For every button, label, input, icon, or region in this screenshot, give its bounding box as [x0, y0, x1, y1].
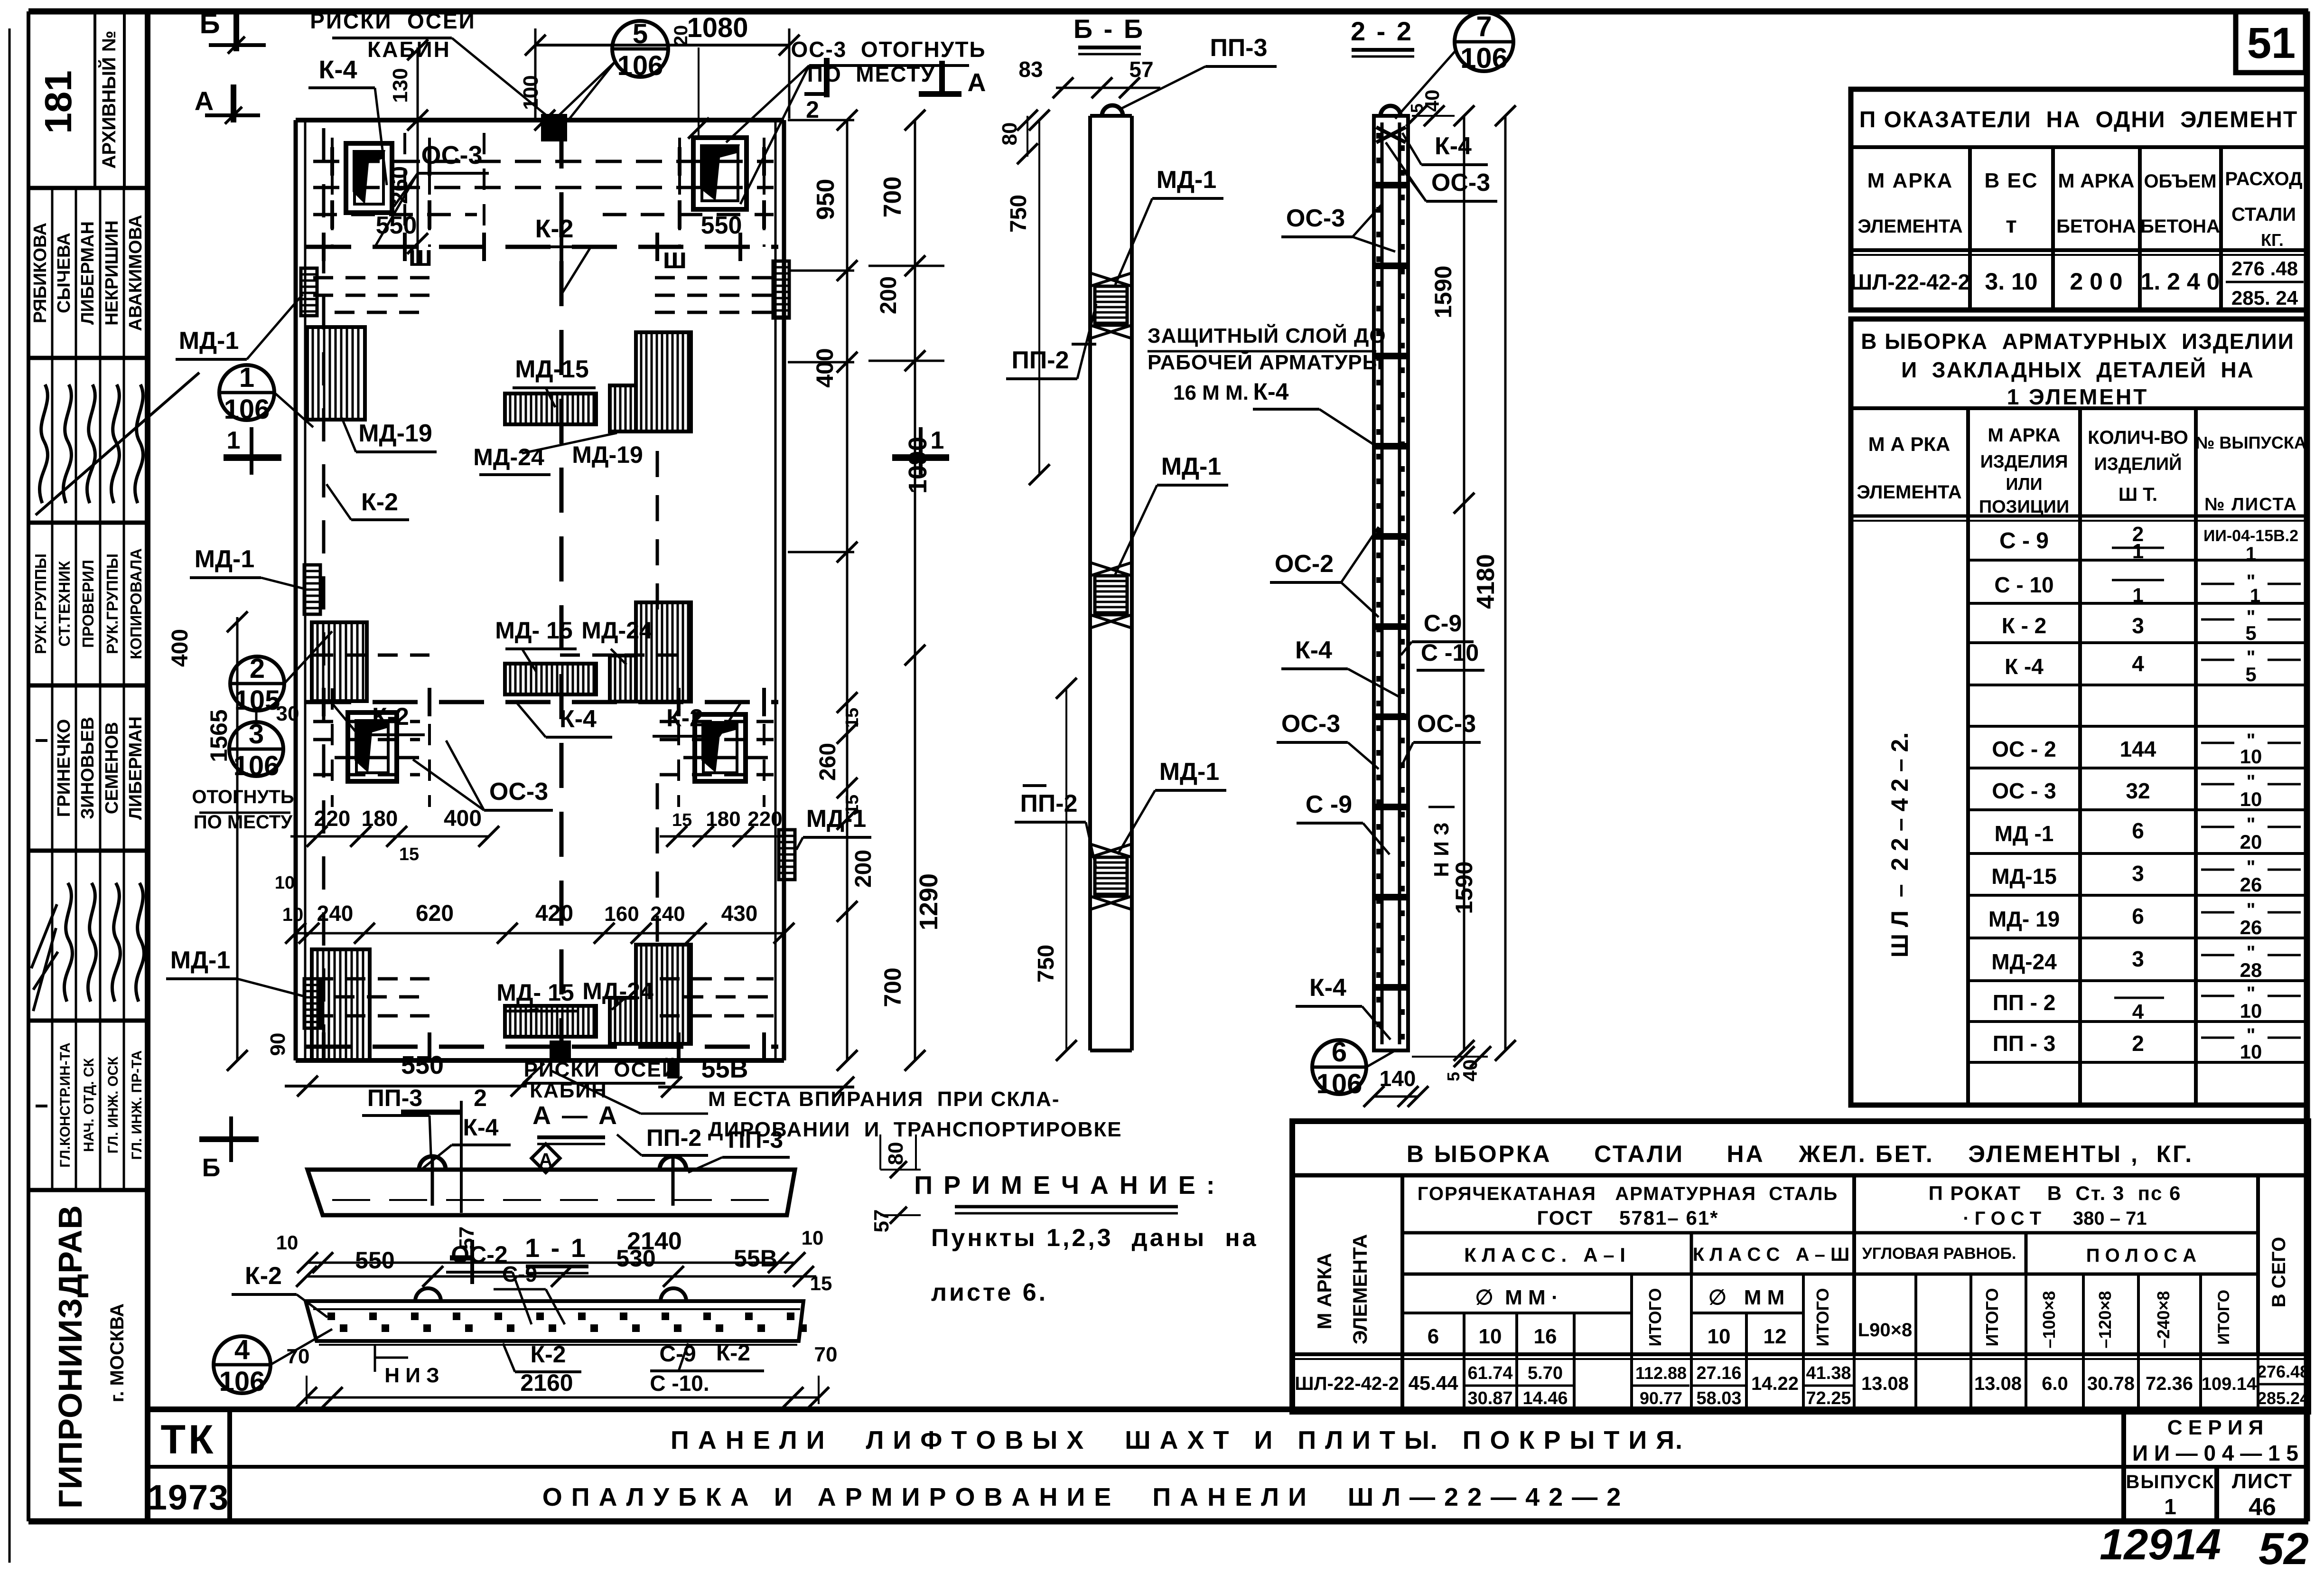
sidebar signatures row 2 [31, 851, 144, 1021]
plan opening top-right [693, 138, 747, 209]
dimension 130/260 top-left [387, 39, 428, 266]
svg-text:К-4: К-4 [1295, 637, 1332, 664]
svg-text:МД-19: МД-19 [358, 420, 432, 447]
svg-text:К-2: К-2 [361, 488, 398, 516]
table2 headers [1857, 425, 2306, 517]
svg-text:Ш Л – 2 2 – 4 2 – 2.: Ш Л – 2 2 – 4 2 – 2. [1886, 732, 1913, 958]
svg-text:28: 28 [2240, 959, 2262, 981]
left margin dimensions 400 / 1565 / 90 / 30 / 10 [168, 611, 299, 1071]
svg-text:15: 15 [399, 844, 419, 864]
svg-text:М АРКА: М АРКА [2058, 169, 2135, 192]
svg-text:ГРИНЕЧКО: ГРИНЕЧКО [54, 719, 74, 817]
svg-text:РУК.ГРУППЫ: РУК.ГРУППЫ [103, 553, 121, 654]
table1 title [1859, 107, 2298, 132]
svg-text:52: 52 [2259, 1524, 2309, 1574]
svg-text:∅ М М: ∅ М М [1708, 1286, 1785, 1309]
svg-text:П ОКАЗАТЕЛИ НА ОДНИ ЭЛЕМЕНТ: П ОКАЗАТЕЛИ НА ОДНИ ЭЛЕМЕНТ [1859, 107, 2298, 132]
svg-text:С -10: С -10 [1421, 639, 1479, 666]
svg-text:30.87: 30.87 [1467, 1388, 1512, 1408]
svg-text:181: 181 [37, 70, 79, 133]
svg-text:3: 3 [249, 719, 264, 750]
svg-text:–100×8: –100×8 [2039, 1291, 2059, 1348]
plan label МД-1 left middle [190, 545, 304, 589]
svg-text:220: 220 [314, 806, 351, 831]
plan bottom dimension 550 left [285, 1051, 532, 1169]
svg-text:180: 180 [706, 807, 740, 831]
svg-text:СТАЛИ: СТАЛИ [2231, 204, 2296, 225]
svg-text:200: 200 [851, 850, 876, 888]
svg-text:НАЧ. ОТД. СК: НАЧ. ОТД. СК [81, 1058, 97, 1152]
svg-text:16 М М.: 16 М М. [1173, 381, 1249, 404]
circled ref 3/106 [229, 711, 283, 781]
svg-text:–120×8: –120×8 [2095, 1291, 2115, 1348]
svg-text:А: А [195, 86, 214, 116]
plan support mark black tick on dim line [667, 1059, 680, 1078]
svg-text:ЛИБЕРМАН: ЛИБЕРМАН [78, 221, 98, 325]
svg-text:ОС-3: ОС-3 [1417, 710, 1476, 738]
svg-text:М А РКА: М А РКА [1868, 433, 1951, 455]
svg-text:т: т [2006, 213, 2017, 238]
svg-text:12914: 12914 [2100, 1520, 2221, 1569]
svg-text:1290: 1290 [915, 873, 943, 930]
svg-text:· Г О С Т 380 – 71: · Г О С Т 380 – 71 [1963, 1208, 2147, 1229]
section 2-2 header [1351, 16, 1414, 56]
svg-text:5.70: 5.70 [1528, 1363, 1563, 1383]
svg-text:К Л А С С . А – I: К Л А С С . А – I [1464, 1244, 1625, 1266]
plan label К-4 top-left [308, 56, 387, 185]
svg-text:ГОСТ 5781– 61*: ГОСТ 5781– 61* [1537, 1207, 1718, 1229]
circled ref 5/106 top [553, 19, 668, 121]
svg-text:БЕТОНА: БЕТОНА [2056, 216, 2136, 237]
svg-text:6: 6 [2132, 904, 2144, 928]
svg-text:ПП-2: ПП-2 [1012, 347, 1069, 374]
svg-text:ЗАЩИТНЫЙ СЛОЙ ДО: ЗАЩИТНЫЙ СЛОЙ ДО [1148, 323, 1386, 347]
plan labels МД-15 МД-24 bottom cluster [496, 978, 653, 1011]
svg-text:1080: 1080 [687, 12, 748, 43]
svg-text:1: 1 [2132, 584, 2143, 606]
svg-text:КАБИН: КАБИН [530, 1079, 607, 1102]
svg-text:2: 2 [250, 653, 265, 684]
plan label ОС-3 middle [413, 741, 553, 810]
plan edge embed МД-1 ladder strip left top [301, 268, 317, 316]
plan hatched plate МД-19 left top [307, 327, 365, 420]
svg-text:109.14: 109.14 [2202, 1374, 2257, 1394]
svg-text:950: 950 [812, 179, 840, 220]
svg-text:550: 550 [355, 1247, 394, 1274]
plan label МД-15 top cluster [513, 356, 596, 407]
svg-text:72.36: 72.36 [2146, 1373, 2193, 1394]
svg-text:550: 550 [401, 1051, 444, 1079]
svg-text:№ ВЫПУСКА: № ВЫПУСКА [2195, 433, 2306, 452]
svg-text:2: 2 [2132, 1031, 2144, 1056]
svg-text:10: 10 [2240, 1000, 2262, 1022]
svg-text:МД- 19: МД- 19 [1988, 907, 2060, 931]
svg-text:80: 80 [998, 122, 1021, 146]
svg-text:106: 106 [233, 750, 280, 781]
svg-text:90: 90 [266, 1033, 289, 1056]
svg-text:РУК.ГРУППЫ: РУК.ГРУППЫ [32, 553, 49, 654]
plan horizontal dashed axis lines [306, 161, 778, 1047]
title block outline [148, 1409, 2308, 1521]
plan label отогнуть по месту left [192, 787, 332, 836]
svg-text:ЭЛЕМЕНТА: ЭЛЕМЕНТА [1857, 482, 1961, 503]
svg-text:550: 550 [376, 212, 417, 239]
section А-А header [532, 1101, 619, 1144]
svg-text:10: 10 [276, 1231, 299, 1254]
section 2-2 labels С-9 / С-10 right [1401, 610, 1484, 670]
svg-text:16: 16 [1534, 1325, 1557, 1348]
svg-text:10: 10 [2240, 745, 2262, 768]
svg-text:70: 70 [814, 1343, 838, 1366]
svg-text:70: 70 [287, 1345, 310, 1368]
title block cell ТК [160, 1417, 216, 1462]
table2 row К-2 [2002, 607, 2301, 644]
svg-text:РИСКИ ОСЕЙ: РИСКИ ОСЕЙ [524, 1057, 678, 1081]
table ВЫБОРКА АРМАТУРНЫХ ИЗДЕЛИЙ frame [1851, 319, 2306, 1105]
svg-text:750: 750 [1034, 945, 1059, 983]
dimension 1080 top [525, 12, 800, 119]
svg-text:М АРКА: М АРКА [1867, 169, 1953, 192]
svg-text:ОС-2: ОС-2 [1275, 550, 1334, 578]
svg-text:27.16: 27.16 [1696, 1363, 1741, 1383]
svg-text:7: 7 [1476, 10, 1492, 42]
svg-text:ПП - 3: ПП - 3 [1993, 1031, 2056, 1056]
sidebar row separators [28, 11, 148, 1521]
sidebar names row 1 [30, 188, 146, 358]
plan hatched plate МД-19 left bottom [312, 949, 370, 1061]
svg-text:1590: 1590 [1451, 861, 1477, 914]
svg-text:П О Л О С А: П О Л О С А [2086, 1245, 2196, 1266]
label РИСКИ ОСЕЙ КАБИН top [310, 9, 551, 119]
plan dim 550 under top-right opening [701, 212, 742, 239]
section Б-Б label МД-1 lower [1118, 758, 1226, 854]
steel table data row [1295, 1362, 2309, 1408]
svg-text:112.88: 112.88 [1635, 1363, 1687, 1383]
steel table band: class headers [1464, 1244, 2196, 1266]
svg-text:МД-15: МД-15 [515, 356, 589, 383]
svg-text:13.08: 13.08 [1974, 1373, 2022, 1394]
svg-text:10: 10 [802, 1227, 824, 1249]
note ПРИМЕЧАНИЕ [914, 1171, 1258, 1306]
right dimension chain 1 (950/400/260/15/200) [788, 110, 876, 1071]
sidebar names row 2 [36, 685, 146, 851]
table2 row С-10 [1994, 571, 2301, 606]
section Б-Б label ПП-2 lower [1015, 786, 1096, 869]
svg-text:ИТОГО: ИТОГО [1645, 1288, 1665, 1347]
table2 row МД-24 [1991, 942, 2301, 981]
svg-text:К-4: К-4 [319, 56, 357, 84]
svg-text:ОС-3: ОС-3 [1281, 710, 1340, 738]
svg-text:В СЕГО: В СЕГО [2268, 1237, 2289, 1308]
plan vertical dashed axis lines [324, 123, 764, 1059]
svg-text:В ЫБОРКА АРМАТУРНЫХ ИЗДЕЛИИ: В ЫБОРКА АРМАТУРНЫХ ИЗДЕЛИИ [1861, 329, 2295, 354]
svg-text:МД-1: МД-1 [179, 327, 239, 355]
svg-text:К-2: К-2 [666, 704, 703, 732]
svg-text:220: 220 [747, 807, 782, 831]
svg-text:20: 20 [671, 25, 691, 47]
plan labels МД-15 МД-24 middle cluster [495, 617, 653, 672]
svg-text:240: 240 [650, 902, 685, 926]
section mark 2 top [804, 58, 827, 123]
svg-text:К-2: К-2 [372, 703, 409, 731]
svg-text:30.78: 30.78 [2087, 1373, 2135, 1394]
svg-text:П РОКАТ В Ст. 3 пс 6: П РОКАТ В Ст. 3 пс 6 [1929, 1182, 2182, 1204]
svg-text:ПОЗИЦИИ: ПОЗИЦИИ [1979, 497, 2069, 517]
svg-text:14.46: 14.46 [1522, 1388, 1568, 1408]
plan hatch cluster bottom [505, 945, 691, 1044]
svg-text:106: 106 [1316, 1069, 1363, 1099]
svg-text:61.74: 61.74 [1467, 1363, 1512, 1383]
svg-text:МД-1: МД-1 [170, 947, 231, 974]
svg-text:700: 700 [879, 967, 906, 1007]
label защитный слой до рабочей арматуры 16мм [1148, 323, 1386, 405]
svg-text:80: 80 [884, 1142, 907, 1165]
svg-text:750: 750 [1006, 195, 1031, 233]
section А-А label ПП-2 [617, 1125, 708, 1155]
plan view panel outline [296, 120, 784, 1060]
svg-text:32: 32 [2126, 778, 2150, 803]
svg-text:ЗИНОВЬЕВ: ЗИНОВЬЕВ [78, 717, 98, 819]
sidebar signatures row 1 [36, 358, 199, 523]
svg-text:ОС-3: ОС-3 [1431, 169, 1490, 197]
svg-text:А — А: А — А [532, 1101, 619, 1130]
table1 headers [1857, 169, 2302, 250]
svg-text:26: 26 [2240, 916, 2262, 938]
table1 data row [1850, 257, 2304, 309]
plan label МД-1 left top [176, 294, 303, 359]
table ВЫБОРКА СТАЛИ НА ЖЕЛ.БЕТ. ЭЛЕМЕНТЫ frame [1292, 1121, 2308, 1412]
svg-text:530: 530 [616, 1245, 655, 1272]
svg-text:Б: Б [202, 1153, 221, 1182]
svg-text:П А Н Е Л И Л И Ф Т О В Ы: П А Н Е Л И Л И Ф Т О В Ы Х Ш А Х Т И П … [671, 1426, 1683, 1454]
label ОС-3 ОТОГНУТЬ ПО МЕСТУ top-right [726, 37, 986, 204]
svg-text:55В: 55В [734, 1245, 777, 1272]
svg-text:72.25: 72.25 [1806, 1388, 1851, 1408]
section 2-2 top dims 5 / 40 [1406, 90, 1455, 126]
svg-text:2160: 2160 [520, 1369, 573, 1396]
table2 row С-9 [1999, 523, 2298, 564]
section 2-2 right dim line 4180 [1472, 105, 1516, 1061]
sidebar institute name ГИПРОНИИЗДРАВ г.Москва [52, 1205, 128, 1509]
svg-text:К-2: К-2 [535, 215, 574, 243]
svg-text:57: 57 [870, 1209, 893, 1233]
plan edge embed МД-1 ladder strip right top [773, 261, 789, 318]
svg-text:1: 1 [2132, 540, 2144, 563]
svg-text:С-9: С-9 [502, 1262, 537, 1286]
svg-text:1: 1 [2250, 585, 2260, 606]
plan hatch cluster middle [505, 602, 691, 702]
section 1-1 label К-2 left [232, 1262, 327, 1317]
svg-text:400: 400 [444, 806, 482, 831]
svg-text:ПП-3: ПП-3 [1210, 34, 1268, 62]
svg-text:1973: 1973 [148, 1478, 230, 1517]
svg-text:106: 106 [617, 50, 663, 81]
svg-text:К-4: К-4 [560, 705, 597, 733]
svg-text:4180: 4180 [1472, 554, 1500, 609]
svg-text:10: 10 [275, 873, 295, 893]
svg-text:ИТОГО: ИТОГО [1813, 1288, 1832, 1347]
svg-text:100: 100 [519, 75, 542, 110]
svg-text:276 .48: 276 .48 [2231, 257, 2298, 280]
svg-text:1: 1 [931, 427, 944, 454]
table2 row ПП-3 [1993, 1025, 2301, 1063]
svg-text:К-2: К-2 [716, 1341, 750, 1366]
section 1-1 bottom labels [287, 1341, 838, 1396]
svg-text:6: 6 [1332, 1037, 1347, 1068]
svg-text:КОЛИЧ-ВО: КОЛИЧ-ВО [2088, 427, 2188, 448]
svg-text:10: 10 [2240, 1041, 2262, 1063]
svg-text:420: 420 [535, 901, 573, 926]
svg-text:1590: 1590 [1430, 265, 1456, 318]
plan dim 550 under top-left opening [376, 212, 417, 239]
svg-text:41.38: 41.38 [1806, 1363, 1851, 1383]
svg-text:СТ.ТЕХНИК: СТ.ТЕХНИК [56, 561, 73, 647]
svg-text:400: 400 [168, 629, 193, 667]
svg-text:106: 106 [219, 1366, 265, 1397]
svg-text:ИЗДЕЛИЙ: ИЗДЕЛИЙ [2094, 453, 2182, 474]
section 2 cut mark on А-А [401, 1085, 487, 1213]
section А-А diamond mark А [532, 1144, 560, 1172]
svg-text:МД -1: МД -1 [1995, 821, 2054, 846]
section 1-1 header [525, 1233, 588, 1273]
svg-text:ЛИСТ: ЛИСТ [2232, 1470, 2293, 1493]
section 2-2 body with reinforcement ladder [1374, 106, 1408, 1050]
svg-text:1 - 1: 1 - 1 [525, 1233, 588, 1263]
svg-text:К-2: К-2 [531, 1341, 566, 1368]
svg-text:К Л А С С А – Ш: К Л А С С А – Ш [1693, 1244, 1850, 1265]
plan opening top-left [346, 143, 392, 213]
svg-text:3. 10: 3. 10 [1985, 268, 2037, 295]
svg-text:15: 15 [810, 1272, 832, 1294]
svg-text:276.48: 276.48 [2257, 1362, 2309, 1381]
svg-text:58.03: 58.03 [1696, 1388, 1741, 1408]
circled ref 7/106 [1395, 10, 1513, 119]
svg-text:И И — 0 4 — 1 5: И И — 0 4 — 1 5 [2132, 1441, 2298, 1465]
svg-text:3: 3 [2132, 861, 2144, 886]
steel table band: diameter headers [1428, 1286, 2233, 1349]
svg-text:А: А [539, 1150, 553, 1171]
svg-text:НЕКРИШИН: НЕКРИШИН [102, 220, 122, 326]
section А-А label ПП-3 right [688, 1126, 790, 1172]
svg-text:700: 700 [879, 177, 906, 218]
page number box 51 [2236, 11, 2305, 73]
svg-text:С - 9: С - 9 [1999, 528, 2049, 553]
svg-text:МД-19: МД-19 [572, 441, 643, 468]
svg-text:ИТОГО: ИТОГО [1982, 1288, 2002, 1347]
svg-text:Ш Т.: Ш Т. [2119, 484, 2157, 505]
svg-text:55В: 55В [701, 1055, 748, 1083]
title line 1: ПАНЕЛИ ЛИФТОВЫХ ШАХТ И ПЛИТЫ ПОКРЫТИЯ [671, 1426, 1683, 1454]
svg-text:46: 46 [2249, 1493, 2276, 1521]
circled ref 1/106 [219, 362, 313, 427]
svg-text:ЭЛЕМЕНТА: ЭЛЕМЕНТА [1349, 1234, 1371, 1344]
svg-text:ПО МЕСТУ: ПО МЕСТУ [194, 812, 293, 833]
svg-text:ЛИБЕРМАН: ЛИБЕРМАН [126, 716, 146, 820]
table2 row МД-19 [1988, 900, 2301, 938]
section 1-1 labels ОС-2 С-9 [446, 1241, 565, 1324]
svg-text:260: 260 [815, 743, 840, 781]
plan bottom dim chain 10/240/620/420/160/240/430 [282, 901, 794, 944]
svg-text:О П А Л У Б К А И А Р М И: О П А Л У Б К А И А Р М И Р О В А Н И Е … [542, 1483, 1622, 1511]
svg-text:А: А [968, 68, 986, 97]
plan hatch cluster top (МД-15 / МД-24 / МД-19) [505, 332, 691, 431]
svg-text:К -4: К -4 [2005, 654, 2044, 679]
section 2-2 labels ОС-3 / ОС-3 lower [1277, 710, 1481, 769]
plan label К-2 top [522, 215, 591, 294]
svg-text:СЕМЕНОВ: СЕМЕНОВ [102, 722, 122, 814]
dimension 20 rotated top [671, 25, 709, 139]
svg-text:АВАКИМОВА: АВАКИМОВА [126, 215, 146, 331]
svg-text:ИИ-04-15В.2: ИИ-04-15В.2 [2203, 527, 2298, 545]
svg-text:К-4: К-4 [1253, 378, 1289, 405]
svg-text:51: 51 [2247, 19, 2296, 67]
section 2-2 bottom dims 140 / 5 / 40 [1363, 1046, 1491, 1107]
sheet box ЛИСТ 46 [2232, 1470, 2293, 1521]
svg-text:550: 550 [701, 212, 742, 239]
section 2-2 right dim line 1590/1590 [1430, 105, 1477, 1061]
svg-text:МД-24: МД-24 [581, 617, 653, 644]
section 1-1 bottom dim 2160 [296, 1376, 829, 1408]
svg-text:ГЛ. ИНЖ. ОСК: ГЛ. ИНЖ. ОСК [105, 1056, 121, 1153]
svg-text:200: 200 [876, 276, 901, 314]
title line 2: ОПАЛУБКА И АРМИРОВАНИЕ ПАНЕЛИ ШЛ-22-42-2 [542, 1483, 1622, 1511]
svg-text:МД-1: МД-1 [1159, 758, 1220, 786]
section 2-2 label ОС-2 [1270, 527, 1379, 617]
svg-text:L90×8: L90×8 [1858, 1320, 1913, 1341]
section 2-2 label К-4 left middle [1281, 637, 1401, 698]
section 2-2 label К-4 top [1402, 132, 1488, 165]
svg-text:4: 4 [234, 1334, 250, 1365]
svg-text:45.44: 45.44 [1408, 1372, 1458, 1394]
svg-text:13.08: 13.08 [1861, 1373, 1909, 1394]
svg-text:КАБИН: КАБИН [367, 37, 451, 62]
svg-text:ш: ш [408, 240, 433, 272]
svg-text:ОС-3: ОС-3 [421, 141, 482, 169]
plan axis intersection tick marks [324, 147, 764, 1061]
plan bottom dim chain 220/180/400/15 left and 15/180/220 right [296, 806, 784, 864]
svg-text:С - 10: С - 10 [1994, 572, 2053, 597]
plan edge embed МД-1 ladder strip right middle [779, 830, 795, 880]
svg-text:ПП-3: ПП-3 [728, 1126, 783, 1153]
section Б-Б header [1073, 14, 1145, 54]
svg-text:14.22: 14.22 [1751, 1373, 1799, 1394]
steel table rotated col labels МАРКА ЭЛЕМЕНТА and ВСЕГО [1313, 1234, 2289, 1344]
table2 row ПП-2 [1993, 983, 2301, 1023]
svg-text:∅ М М ·: ∅ М М · [1475, 1286, 1558, 1309]
plan axis mark blob bottom [550, 1041, 571, 1062]
svg-text:Пункты 1,2,3 даны на: Пункты 1,2,3 даны на [931, 1224, 1259, 1252]
svg-text:1. 2 4 0: 1. 2 4 0 [2141, 268, 2220, 295]
section А-А body (panel side elevation) [308, 1156, 795, 1215]
svg-text:12: 12 [1764, 1325, 1787, 1348]
svg-text:2: 2 [474, 1085, 487, 1111]
section А-А label ПП-3 left [362, 1085, 431, 1154]
svg-text:Б: Б [199, 8, 220, 39]
svg-text:430: 430 [721, 901, 758, 926]
plan hatched plate МД-19 left middle [312, 622, 367, 701]
svg-text:ПП-3: ПП-3 [367, 1085, 422, 1111]
svg-text:ИЛИ: ИЛИ [2006, 474, 2042, 494]
svg-text:ШЛ-22-42-2: ШЛ-22-42-2 [1850, 270, 1970, 294]
svg-text:МД-1: МД-1 [195, 545, 255, 573]
svg-text:ПП-2: ПП-2 [1020, 790, 1078, 817]
svg-text:1: 1 [227, 427, 241, 454]
svg-text:ИТОГО: ИТОГО [2215, 1290, 2233, 1345]
svg-text:МД-15: МД-15 [1991, 864, 2057, 889]
svg-text:ВЫПУСК: ВЫПУСК [2126, 1472, 2215, 1492]
svg-text:К - 2: К - 2 [2002, 613, 2047, 638]
svg-text:ш: ш [663, 242, 687, 275]
